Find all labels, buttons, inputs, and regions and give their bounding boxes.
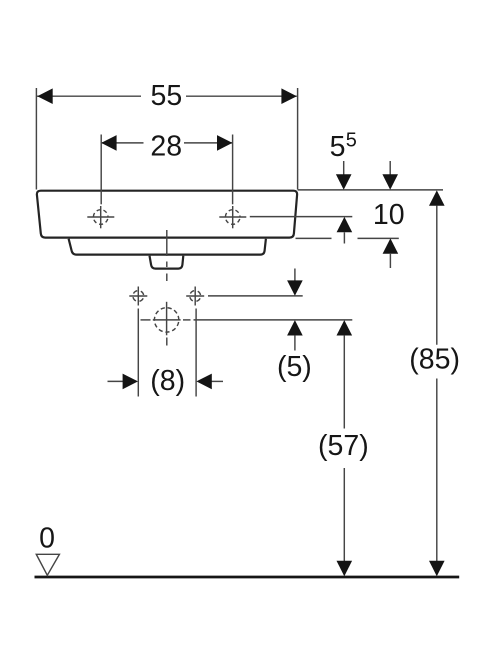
drain hole [153,302,181,336]
dimension (5) [277,269,312,384]
drain level reference line [141,319,353,321]
faucet level reference line [250,216,352,218]
svg-text:(85): (85) [409,344,460,376]
svg-text:(8): (8) [150,365,185,397]
svg-text:28: 28 [150,131,182,163]
dimension 28 [101,131,232,205]
faucet hole right [219,206,246,228]
basin bottom reference line [296,237,399,239]
dimension 55 [36,80,297,190]
faucet hole left [87,206,114,228]
svg-text:0: 0 [39,523,55,555]
dimension (85) [409,190,460,576]
svg-text:(57): (57) [318,430,369,462]
svg-text:(5): (5) [277,351,312,383]
dimension 5.5 [330,130,357,244]
washbasin outline [37,191,297,238]
svg-text:5: 5 [330,131,346,163]
dimension (8) [108,309,224,398]
fixing level reference line [208,295,303,297]
floor line [35,576,460,579]
top reference line [298,189,443,191]
dimension 10 [373,161,405,268]
center line [166,230,168,346]
svg-text:5: 5 [346,130,357,152]
drain overflow box [150,256,184,269]
svg-text:55: 55 [151,80,183,112]
datum zero symbol [36,523,59,576]
washbasin base [69,239,266,255]
dimension (57) [318,320,369,576]
svg-text:10: 10 [373,199,405,231]
fixing hole right [186,287,204,306]
fixing hole left [129,287,147,306]
